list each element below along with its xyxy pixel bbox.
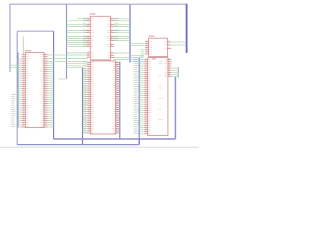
sheet bottom edge (gray) — [0, 146, 199, 148]
wire bundle: IC1 right pins to bus x130 — [113, 19, 130, 60]
long wires from frame left to left IC pins — [10, 64, 22, 66]
wire — [138, 139, 140, 145]
refdes label U3 — [149, 36, 155, 37]
green vertical wire into left IC pin 1 — [22, 37, 24, 54]
bus right vertical (thick blue) — [186, 4, 188, 53]
wire bundle: left IC right pins to bus x53 — [47, 63, 54, 127]
bus vertical x175 — [174, 77, 176, 139]
long wires: left IC to IC1/IC4 across buses — [47, 55, 88, 79]
wire bundle: bus x130 east to IC3/IC5 left pins — [130, 44, 145, 62]
bus bottom horizontal y144 — [17, 144, 139, 146]
inner frame top edge — [17, 30, 53, 32]
net labels left of IC5 pins — [134, 59, 139, 134]
wire stubs: IC5 right pins to bus x178 — [172, 68, 179, 76]
IC U4 (bottom-middle tall IC) with pins — [87, 61, 119, 134]
wire bundle: IC1 left pins to bus x66 — [67, 19, 88, 53]
frame left edge — [9, 4, 11, 72]
IC U2 (left tall IC) with pins — [22, 53, 48, 128]
net labels left of left IC — [11, 94, 15, 127]
net labels on IC4 left wires — [83, 62, 87, 133]
bus vertical x120 — [119, 62, 121, 140]
bus vertical x130 — [129, 4, 131, 62]
bus vertical x17 (left) — [16, 31, 18, 144]
short green marks left of IC3 pins — [141, 50, 145, 56]
net labels on IC1 right wires — [114, 18, 118, 41]
bus bottom horizontal y139 — [54, 138, 176, 140]
IC U3 (right small IC) with pins — [145, 38, 171, 56]
refdes label U4 — [90, 58, 92, 59]
wire stubs: bus x17 to left IC left pins — [17, 59, 22, 127]
value label U5 — [152, 58, 156, 59]
wire stubs: bus x139 to IC5 left pins — [139, 60, 144, 134]
IC U5 (right tall IC) with pins — [144, 58, 171, 136]
bus vertical x66 — [66, 4, 68, 79]
bus vertical x82 — [82, 68, 84, 145]
wire stubs: bus x82 to IC4 left pins — [83, 69, 88, 133]
bus vertical x139 — [138, 58, 140, 145]
bus vertical x53 — [53, 31, 55, 139]
refdes label U2 — [25, 50, 31, 51]
bus vertical x178 — [177, 67, 179, 78]
wire stubs: IC4 right pins to bus x120 — [116, 62, 120, 133]
sparse value texts inside IC5 — [159, 61, 164, 120]
net labels on IC1 left wires — [83, 18, 88, 47]
wires: IC3 right pins to thick blue bus — [172, 41, 187, 43]
bus vertical x18 (dark segment) — [17, 53, 19, 128]
frame top edge — [10, 3, 187, 5]
IC U1 (top-centre IC) with pins — [87, 16, 114, 60]
refdes label U1 — [90, 13, 96, 14]
